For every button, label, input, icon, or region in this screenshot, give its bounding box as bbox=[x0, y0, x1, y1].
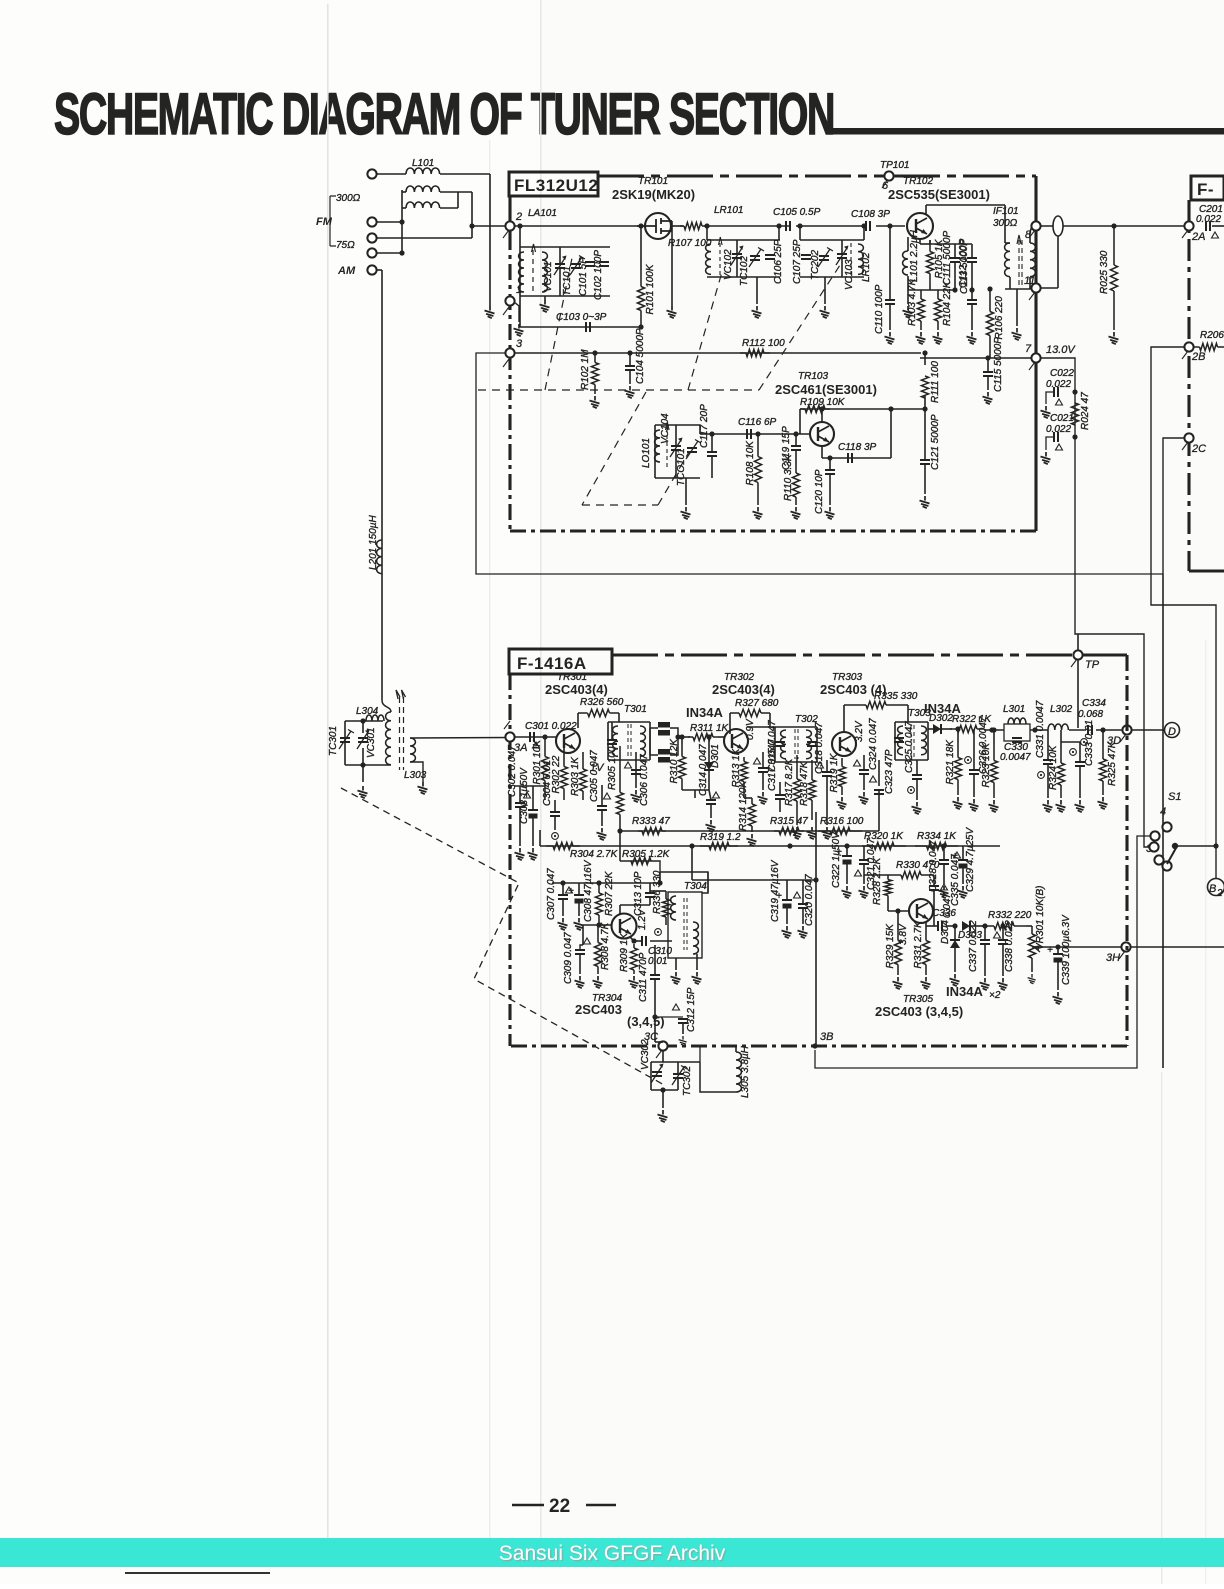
ground bbox=[515, 848, 525, 860]
junction bbox=[638, 324, 643, 329]
pin dash bbox=[882, 180, 1035, 370]
capacitor C313 bbox=[645, 893, 655, 897]
wire bbox=[514, 785, 545, 787]
wire bbox=[1175, 845, 1216, 847]
wire bbox=[650, 754, 658, 756]
svg-text:C102 100P: C102 100P bbox=[593, 250, 604, 300]
junction bbox=[969, 287, 974, 292]
svg-text:D302: D302 bbox=[929, 713, 953, 724]
wire to 3B bbox=[815, 812, 817, 1044]
ground bbox=[967, 332, 977, 344]
wire bbox=[471, 192, 473, 238]
wire bbox=[863, 846, 865, 860]
wire bbox=[846, 864, 848, 884]
wire bbox=[1096, 729, 1123, 731]
wire bbox=[655, 1016, 683, 1018]
scan fold line bbox=[540, 0, 542, 1538]
ground bbox=[950, 974, 960, 986]
wire bbox=[1002, 926, 1004, 940]
wire bbox=[747, 726, 775, 728]
svg-text:D: D bbox=[1168, 726, 1176, 738]
balun coil bbox=[406, 202, 440, 208]
junction bbox=[360, 718, 365, 723]
marker bbox=[1056, 399, 1063, 405]
svg-text:×2: ×2 bbox=[989, 990, 1001, 1001]
svg-text:C111 5000P: C111 5000P bbox=[942, 231, 953, 285]
svg-text:2SC535(SE3001): 2SC535(SE3001) bbox=[888, 187, 990, 202]
core bbox=[400, 697, 404, 770]
svg-text:R318 47K: R318 47K bbox=[799, 760, 810, 806]
wire bbox=[629, 370, 631, 384]
block2 left edge bbox=[508, 674, 511, 1046]
svg-text:C308 47µ16V: C308 47µ16V bbox=[583, 859, 594, 922]
pin 2 bbox=[505, 221, 514, 230]
svg-text:TC302: TC302 bbox=[682, 1066, 693, 1096]
ground bbox=[825, 507, 835, 519]
block1 bottom edge bbox=[510, 529, 1036, 532]
wire bbox=[651, 1061, 700, 1063]
ground bbox=[791, 507, 801, 519]
svg-text:Sansui Six GFGF Archiv: Sansui Six GFGF Archiv bbox=[499, 1542, 726, 1565]
marker bbox=[524, 792, 531, 798]
wire bbox=[696, 954, 698, 970]
wire bbox=[822, 457, 891, 459]
svg-text:VR301 10K(B): VR301 10K(B) bbox=[1035, 886, 1046, 950]
wire bbox=[897, 911, 899, 930]
antenna terminal bbox=[367, 217, 376, 226]
wire bbox=[362, 721, 364, 733]
core bbox=[719, 243, 721, 275]
gang link dash bbox=[545, 258, 572, 390]
wire bbox=[908, 289, 955, 291]
svg-text:0.068: 0.068 bbox=[1078, 709, 1103, 720]
wire bbox=[729, 713, 731, 734]
core bbox=[628, 724, 631, 758]
ground bbox=[912, 802, 922, 814]
pin 1 bbox=[505, 296, 514, 305]
resistor R109 bbox=[800, 408, 830, 410]
pin dash bbox=[656, 230, 1188, 1058]
svg-text:22: 22 bbox=[549, 1496, 570, 1517]
svg-text:L201 150µH: L201 150µH bbox=[368, 515, 379, 570]
wire bbox=[671, 240, 673, 306]
IF transformer T302 secondary bbox=[806, 730, 811, 759]
wire bbox=[662, 1090, 664, 1108]
block2 bottom edge bbox=[510, 1044, 1127, 1047]
wire bbox=[519, 807, 521, 846]
capacitor C110 bbox=[885, 300, 895, 304]
ground bbox=[752, 306, 762, 318]
svg-text:C331 0.0047: C331 0.0047 bbox=[1035, 700, 1046, 758]
ground bbox=[807, 827, 817, 839]
wire bbox=[694, 790, 696, 798]
ground bbox=[753, 507, 763, 519]
svg-text:+: + bbox=[1047, 945, 1053, 956]
svg-text:L302: L302 bbox=[1050, 704, 1073, 715]
junction bbox=[989, 727, 994, 732]
switch S1 common bbox=[1172, 843, 1178, 849]
wire bbox=[954, 926, 956, 940]
svg-text:3: 3 bbox=[516, 338, 523, 350]
wire bbox=[1030, 288, 1036, 289]
ceramic filter CF1 bbox=[658, 722, 670, 728]
core bbox=[795, 729, 798, 759]
ground bbox=[1028, 974, 1036, 984]
capacitor C307 bbox=[558, 895, 568, 899]
inductor L302 bbox=[1048, 724, 1068, 730]
junction bbox=[1032, 727, 1037, 732]
switch arm bbox=[1167, 848, 1176, 864]
collector wire bbox=[821, 409, 823, 422]
capacitor C115 bbox=[983, 372, 993, 376]
capacitor C118 bbox=[848, 453, 852, 463]
capacitor C106 bbox=[765, 255, 775, 259]
resistor R324 bbox=[1060, 750, 1062, 798]
wire bbox=[829, 474, 831, 505]
svg-text:TC202: TC202 bbox=[810, 250, 821, 280]
ground bbox=[667, 306, 677, 318]
capacitor C337 bbox=[980, 940, 990, 944]
resistor R304 bbox=[546, 845, 580, 847]
bottom mark bbox=[125, 1572, 270, 1574]
wire bbox=[629, 353, 631, 366]
wire bbox=[816, 727, 818, 762]
node 3B bbox=[812, 1043, 817, 1048]
antenna coil LA101 primary bbox=[519, 252, 524, 292]
wire bbox=[1002, 944, 1004, 976]
tank bottom bbox=[800, 276, 864, 278]
junction bbox=[709, 431, 714, 436]
capacitor C334 bbox=[1088, 725, 1092, 735]
wire bbox=[736, 258, 738, 277]
capacitor C112 bbox=[967, 258, 977, 262]
marker bbox=[655, 929, 662, 936]
wire bbox=[640, 226, 642, 270]
wire bbox=[863, 864, 865, 884]
wire bbox=[1030, 226, 1032, 232]
svg-text:R332 220: R332 220 bbox=[988, 910, 1032, 921]
junction bbox=[689, 843, 694, 848]
ground bbox=[593, 976, 603, 988]
wire bbox=[563, 748, 565, 755]
svg-text:C313 10P: C313 10P bbox=[633, 871, 644, 916]
resistor R326 bbox=[578, 712, 619, 714]
block1 top edge bbox=[894, 174, 1036, 177]
wire bbox=[402, 191, 406, 193]
feedthrough bbox=[1053, 216, 1063, 236]
wire bbox=[795, 434, 797, 446]
wire bbox=[682, 789, 709, 791]
wire bbox=[376, 269, 382, 271]
wire bbox=[933, 875, 935, 886]
page number bbox=[512, 1504, 616, 1507]
wire bbox=[650, 890, 666, 892]
svg-text:1V: 1V bbox=[590, 762, 605, 774]
marker bbox=[754, 758, 761, 764]
antenna terminal bbox=[367, 169, 376, 178]
junction bbox=[941, 843, 946, 848]
diode D302 bbox=[933, 724, 941, 734]
pin dash bbox=[504, 721, 510, 729]
ground bbox=[837, 797, 847, 809]
wire bbox=[376, 237, 472, 239]
resistor R314 bbox=[751, 798, 753, 832]
junction bbox=[631, 938, 636, 943]
resistor R330 bbox=[888, 874, 934, 876]
wire bbox=[774, 727, 776, 762]
wire bbox=[440, 173, 490, 175]
bias rail 2 bbox=[552, 882, 660, 884]
coil jog bbox=[382, 700, 391, 712]
capacitor C315 bbox=[758, 768, 768, 772]
ground bbox=[485, 306, 495, 318]
svg-text:VC101: VC101 bbox=[543, 261, 554, 292]
svg-text:L301: L301 bbox=[1003, 704, 1025, 715]
LO tank top bbox=[655, 424, 700, 426]
junction bbox=[813, 877, 818, 882]
wire bbox=[973, 774, 975, 797]
VR wiper bbox=[1034, 946, 1040, 952]
wire bbox=[946, 925, 955, 927]
return wire bbox=[1162, 574, 1164, 1068]
svg-text:R104 22K: R104 22K bbox=[942, 280, 953, 326]
svg-text:C120 10P: C120 10P bbox=[814, 469, 825, 514]
wire to 3A bbox=[410, 737, 510, 740]
svg-text:C104 5000P: C104 5000P bbox=[635, 328, 646, 384]
IF transformer T303 secondary bbox=[921, 726, 926, 755]
junction bbox=[660, 1087, 665, 1092]
module FL312U12 label box bbox=[509, 172, 598, 196]
resistor R206 bbox=[1193, 346, 1224, 348]
wire bbox=[971, 304, 973, 330]
wire to 2A bbox=[1040, 225, 1186, 227]
wire bbox=[962, 846, 964, 860]
inductor L301 coil bbox=[1008, 718, 1026, 724]
wire bbox=[700, 1062, 736, 1092]
junction bbox=[844, 843, 849, 848]
wire bbox=[1077, 659, 1079, 728]
svg-text:C329 4.7µ25V: C329 4.7µ25V bbox=[965, 827, 976, 892]
junction bbox=[1100, 727, 1105, 732]
svg-text:R326 560: R326 560 bbox=[580, 697, 624, 708]
capacitor C338 bbox=[998, 940, 1008, 944]
svg-text:R316 100: R316 100 bbox=[820, 816, 864, 827]
diode D303 bbox=[962, 921, 970, 931]
wire bbox=[649, 883, 651, 893]
core bbox=[911, 725, 914, 757]
svg-text:2C: 2C bbox=[1191, 443, 1206, 455]
core bbox=[666, 428, 668, 470]
wire bbox=[962, 868, 964, 884]
ground bbox=[747, 834, 757, 846]
wire bbox=[559, 247, 561, 264]
resistor R318 bbox=[811, 760, 813, 820]
svg-text:C319 47µ16V: C319 47µ16V bbox=[770, 859, 781, 922]
wire bbox=[925, 205, 927, 215]
wire bbox=[762, 752, 764, 768]
ground bbox=[885, 332, 895, 344]
junction bbox=[982, 923, 987, 928]
wire bbox=[1031, 966, 1033, 972]
svg-text:C117 20P: C117 20P bbox=[699, 404, 710, 448]
junction bbox=[797, 223, 802, 228]
wire bbox=[519, 247, 521, 296]
svg-text:T304: T304 bbox=[684, 881, 707, 892]
capacitor C330 bbox=[1012, 738, 1022, 742]
wire bbox=[841, 240, 843, 254]
wire bbox=[376, 173, 406, 175]
svg-text:C101 5P: C101 5P bbox=[578, 257, 589, 296]
wire bbox=[457, 192, 459, 208]
wire bbox=[762, 772, 764, 790]
marker bbox=[1070, 749, 1077, 756]
svg-text:C113 5000P: C113 5000P bbox=[959, 239, 970, 294]
pin7 rail bbox=[920, 357, 1032, 359]
wire bbox=[957, 729, 959, 742]
wire bbox=[878, 790, 880, 831]
junction bbox=[952, 287, 957, 292]
junction bbox=[987, 286, 992, 291]
scan fold line bbox=[327, 4, 329, 1538]
resistor R327 bbox=[730, 712, 770, 714]
capacitor C101 bbox=[585, 262, 595, 266]
svg-text:2SC461(SE3001): 2SC461(SE3001) bbox=[775, 382, 877, 397]
wire bbox=[634, 940, 641, 942]
capacitor C104 bbox=[625, 366, 635, 370]
marker bbox=[584, 938, 591, 944]
wire bbox=[1046, 437, 1054, 450]
svg-text:S1: S1 bbox=[1168, 791, 1181, 803]
ground bbox=[1041, 406, 1051, 418]
junction bbox=[1072, 434, 1077, 439]
transistor TR302 2SC403 bbox=[724, 729, 748, 753]
switch contact bbox=[1154, 855, 1163, 864]
svg-text:C304 0.01: C304 0.01 bbox=[542, 760, 553, 806]
gang link dash bbox=[582, 392, 646, 505]
diode D301 bbox=[704, 762, 714, 770]
ground bbox=[540, 300, 550, 312]
capacitor C311 bbox=[650, 975, 660, 979]
ground bbox=[597, 828, 607, 840]
wire bbox=[611, 722, 613, 740]
wire bbox=[743, 786, 745, 798]
svg-text:C108 3P: C108 3P bbox=[851, 209, 890, 220]
wire bbox=[987, 376, 989, 390]
svg-text:C121 5000P: C121 5000P bbox=[930, 414, 941, 470]
wire bbox=[889, 226, 891, 300]
wire bbox=[971, 244, 973, 258]
wire bbox=[554, 800, 556, 812]
wire bbox=[973, 729, 975, 770]
ground bbox=[921, 977, 931, 989]
osc base wire bbox=[700, 433, 810, 435]
wire bbox=[824, 277, 826, 304]
wire bbox=[984, 926, 986, 940]
wire bbox=[1077, 634, 1079, 651]
wire bbox=[649, 728, 651, 755]
scan fold line bbox=[1161, 1072, 1162, 1584]
resistor VR301 bbox=[1031, 926, 1033, 966]
junction bbox=[704, 223, 709, 228]
svg-text:0.0047: 0.0047 bbox=[1000, 752, 1031, 763]
junction bbox=[819, 406, 824, 411]
svg-text:R103 4.7K: R103 4.7K bbox=[907, 277, 918, 326]
wire bbox=[843, 705, 845, 733]
block1 right edge bbox=[1034, 176, 1037, 531]
svg-text:C022: C022 bbox=[1050, 368, 1074, 379]
ground bbox=[671, 972, 681, 984]
LO tank bottom bbox=[655, 477, 700, 479]
wire bbox=[677, 1062, 679, 1074]
junction bbox=[888, 406, 893, 411]
antenna terminal bbox=[367, 265, 376, 274]
junction bbox=[596, 922, 601, 927]
resistor R102 bbox=[594, 353, 596, 394]
svg-text:C107 25P: C107 25P bbox=[792, 239, 803, 284]
svg-text:R331 2.7K: R331 2.7K bbox=[913, 920, 924, 969]
svg-text:R330 470: R330 470 bbox=[896, 860, 940, 871]
wire bbox=[685, 478, 687, 505]
wire bbox=[376, 252, 402, 254]
wire bbox=[671, 225, 683, 227]
svg-text:AM: AM bbox=[337, 265, 356, 277]
ground bbox=[1056, 800, 1066, 812]
F- module bottom edge bbox=[1189, 569, 1224, 572]
marker bbox=[1212, 232, 1219, 238]
capacitor C318 bbox=[822, 772, 832, 776]
wire bbox=[607, 722, 609, 760]
wire bbox=[863, 774, 865, 790]
pin 7 bbox=[1031, 353, 1040, 362]
wire bbox=[582, 752, 584, 760]
svg-text:IN34A: IN34A bbox=[946, 984, 983, 999]
svg-text:C325 0.047: C325 0.047 bbox=[904, 721, 915, 773]
pin 2A bbox=[1184, 221, 1193, 230]
resistor R331 bbox=[925, 930, 927, 975]
T301 bottom bbox=[608, 759, 650, 761]
svg-text:C333 0.01: C333 0.01 bbox=[1084, 720, 1095, 766]
wire bbox=[826, 776, 828, 825]
IF rail bbox=[514, 736, 557, 738]
terminal B2 bbox=[1208, 879, 1224, 896]
capacitor C021 bbox=[1054, 432, 1058, 442]
wire bbox=[519, 226, 521, 247]
svg-text:FL312U12: FL312U12 bbox=[514, 176, 598, 195]
capacitor C325 bbox=[912, 775, 922, 779]
ground bbox=[625, 386, 635, 398]
resistor R103 bbox=[920, 290, 922, 330]
wire bbox=[562, 883, 564, 895]
marker bbox=[954, 852, 961, 858]
svg-text:VC102: VC102 bbox=[723, 249, 734, 280]
wire bbox=[601, 810, 603, 826]
svg-text:C337 0.022: C337 0.022 bbox=[968, 920, 979, 972]
wire bbox=[736, 240, 738, 254]
wire bbox=[1046, 392, 1054, 404]
wire bbox=[519, 296, 521, 327]
ground bbox=[980, 978, 990, 990]
wire bbox=[924, 464, 926, 494]
resistor R325 bbox=[1102, 745, 1104, 795]
svg-text:L305 3.8µH: L305 3.8µH bbox=[740, 1045, 751, 1098]
wire bbox=[1005, 242, 1010, 244]
switch contact 3 bbox=[1149, 842, 1158, 851]
capacitor C116 bbox=[747, 429, 751, 439]
wire bbox=[440, 207, 458, 209]
svg-text:T301: T301 bbox=[624, 704, 647, 715]
L304 tank top bbox=[345, 720, 383, 722]
capacitor C113 bbox=[967, 300, 977, 304]
